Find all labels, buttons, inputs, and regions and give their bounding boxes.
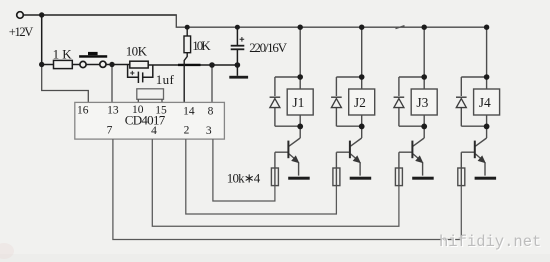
svg-text:K: K — [62, 47, 72, 62]
svg-text:J4: J4 — [479, 95, 491, 110]
svg-text:1: 1 — [53, 47, 60, 62]
svg-text:8: 8 — [208, 105, 214, 117]
svg-text:hifidiy.net: hifidiy.net — [439, 233, 541, 251]
svg-text:13: 13 — [107, 105, 119, 117]
svg-text:1uf: 1uf — [156, 72, 175, 87]
svg-text:7: 7 — [107, 125, 113, 137]
svg-text:14: 14 — [183, 105, 195, 117]
svg-text:10K: 10K — [126, 43, 148, 58]
svg-text:16: 16 — [77, 105, 89, 117]
svg-text:J2: J2 — [354, 95, 366, 110]
svg-text:J1: J1 — [292, 95, 304, 110]
svg-text:10K: 10K — [192, 38, 211, 53]
svg-text:3: 3 — [206, 125, 212, 137]
svg-text:220/16V: 220/16V — [249, 40, 287, 55]
svg-text:2: 2 — [184, 125, 190, 137]
svg-text:J3: J3 — [416, 95, 428, 110]
svg-text:+12V: +12V — [9, 25, 34, 39]
svg-text:CD4017: CD4017 — [125, 113, 166, 128]
svg-text:10k∗4: 10k∗4 — [227, 170, 261, 185]
